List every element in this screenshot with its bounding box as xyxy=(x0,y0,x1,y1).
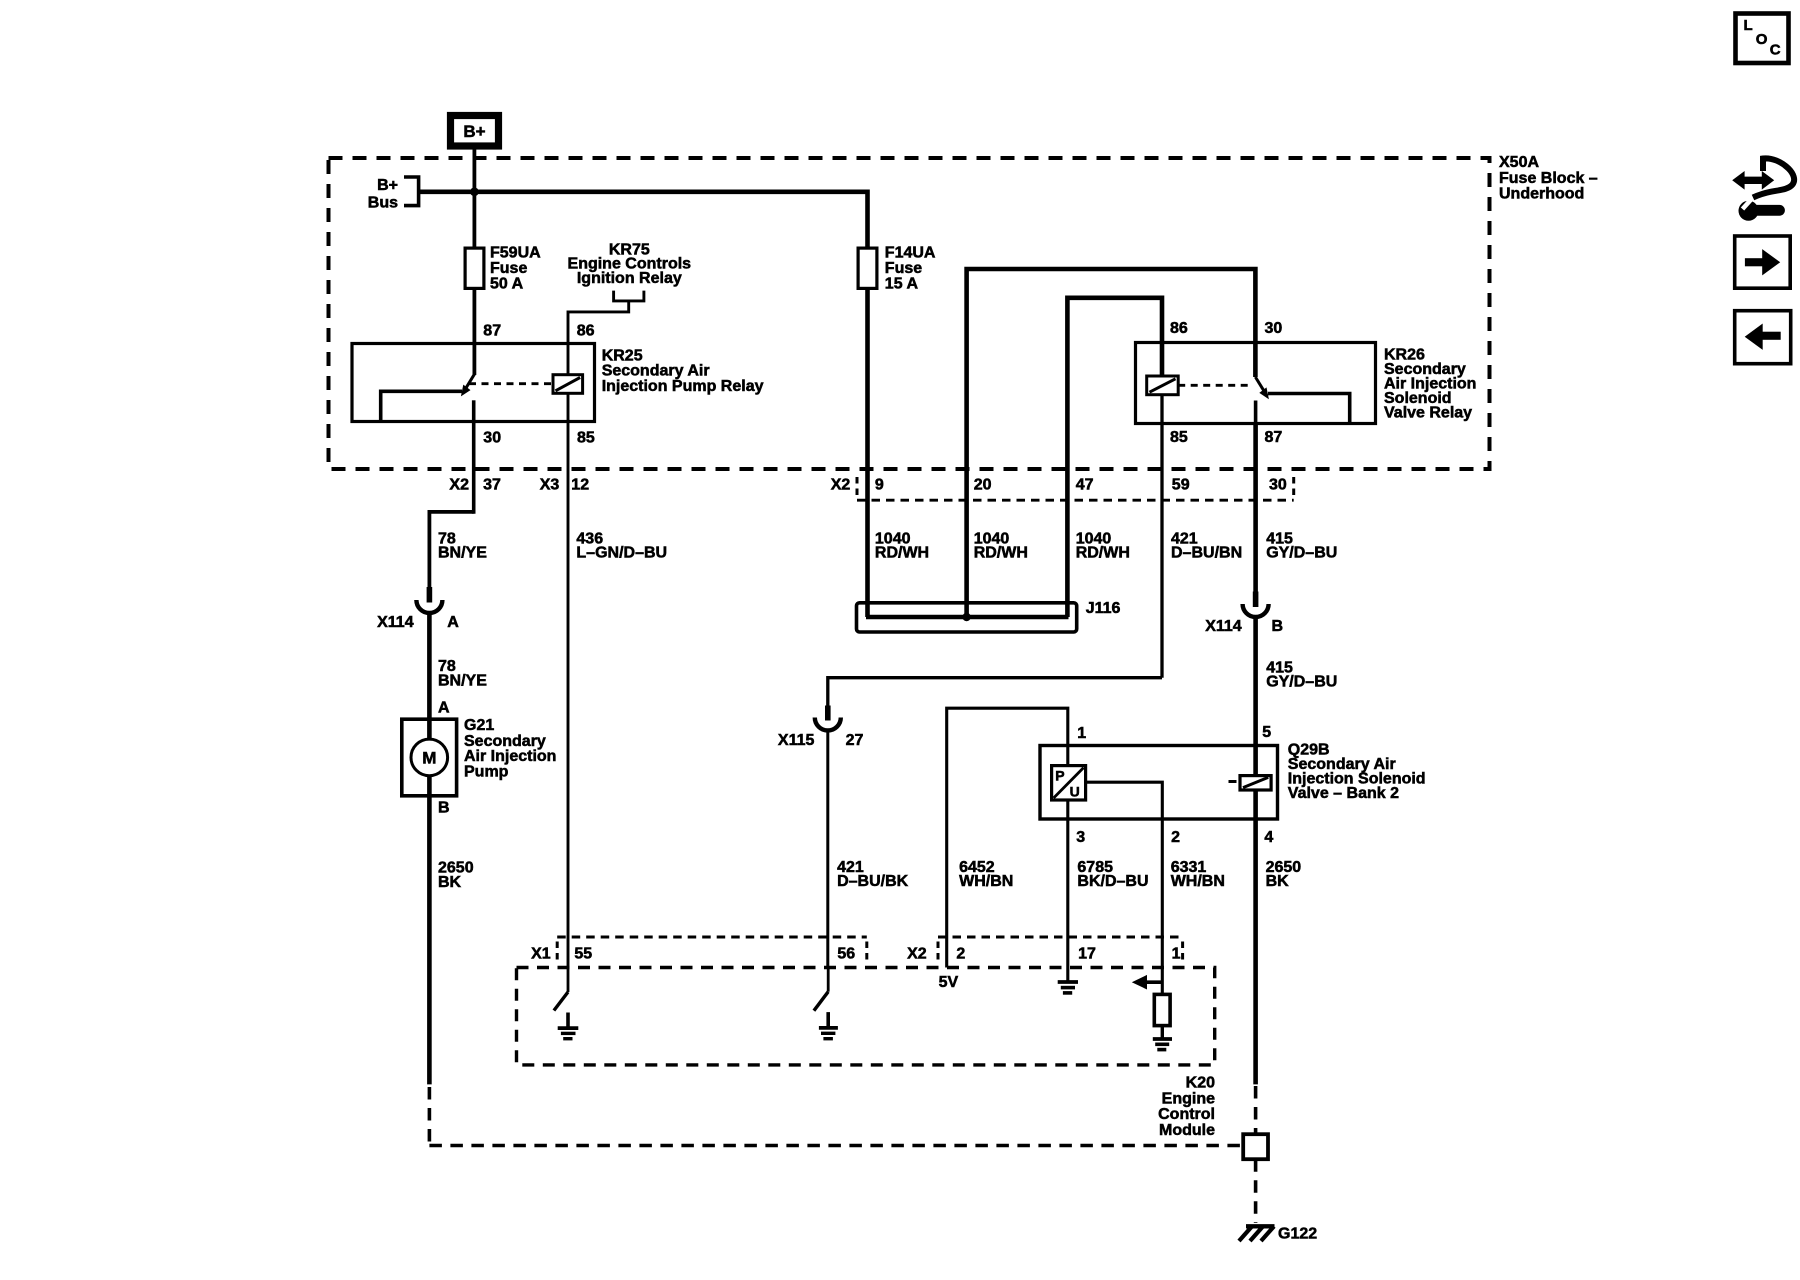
connector X1 row at ECM xyxy=(531,937,867,963)
node B+ Bus bracket xyxy=(368,177,419,212)
KR26 coil xyxy=(1147,376,1179,395)
svg-text:2: 2 xyxy=(956,946,965,963)
wire label 421 D-BU/BN xyxy=(1171,530,1242,561)
label K20 Engine Control Module xyxy=(1158,1075,1215,1139)
svg-text:D–BU/BK: D–BU/BK xyxy=(837,873,909,890)
svg-text:P: P xyxy=(1055,768,1064,784)
icon forward arrow box xyxy=(1735,236,1791,288)
svg-text:87: 87 xyxy=(1265,429,1283,446)
svg-text:RD/WH: RD/WH xyxy=(974,545,1028,562)
icon LOC box top right xyxy=(1736,14,1789,64)
svg-text:B+: B+ xyxy=(377,177,398,194)
svg-text:WH/BN: WH/BN xyxy=(959,873,1013,890)
svg-text:GY/D–BU: GY/D–BU xyxy=(1266,545,1337,562)
svg-text:87: 87 xyxy=(483,323,501,340)
wire label 78 BN/YE lower xyxy=(438,658,487,689)
fuse block X50A dashed outline xyxy=(329,158,1490,469)
ground symbol ECM pin 17 xyxy=(1058,968,1078,993)
label KR26 Secondary Air Injection Solenoid Valve Relay xyxy=(1384,346,1476,421)
junction B+ bus / F59UA feed xyxy=(470,187,479,196)
svg-text:BN/YE: BN/YE xyxy=(438,545,487,562)
KR25 pin 30 stub inside box xyxy=(472,400,476,421)
svg-text:X3: X3 xyxy=(540,476,560,493)
svg-text:X115: X115 xyxy=(778,732,815,749)
icon back arrow box xyxy=(1735,311,1791,364)
svg-text:Underhood: Underhood xyxy=(1499,186,1584,203)
node B+ battery feed box xyxy=(451,116,499,147)
relay KR75 Engine Controls Ignition Relay label xyxy=(568,242,692,288)
svg-text:GY/D–BU: GY/D–BU xyxy=(1266,674,1337,691)
svg-text:L–GN/D–BU: L–GN/D–BU xyxy=(576,545,667,562)
connector X2 row (fuse block right) dashed region xyxy=(831,476,1294,500)
KR26 common contact L-wire xyxy=(1268,394,1350,423)
wire 421 D-BU/BN elbow from KR26-85 over to X115 xyxy=(828,678,1162,707)
svg-text:85: 85 xyxy=(577,429,595,446)
ground symbol ECM resistor xyxy=(1153,1026,1172,1050)
svg-text:2: 2 xyxy=(1171,829,1180,846)
wire label 6785 BK/D-BU xyxy=(1077,859,1148,890)
icon double-arrow hand and wrench xyxy=(1732,158,1794,220)
wire KR75 bracket link to KR25 pin 86 xyxy=(568,291,644,344)
svg-text:B+: B+ xyxy=(463,122,485,141)
ground symbol ECM pin 56 xyxy=(819,1012,838,1039)
connector X114 terminal A xyxy=(377,587,459,631)
wire 1040 RD/WH from J116 up over to KR26 pin 86 coil xyxy=(1067,298,1162,617)
svg-text:59: 59 xyxy=(1172,476,1190,493)
svg-text:Air Injection: Air Injection xyxy=(464,748,556,765)
svg-text:X50A: X50A xyxy=(1499,154,1539,171)
wire 2650 BK from pump down xyxy=(427,796,432,1085)
Q29B solenoid coil xyxy=(1229,776,1272,790)
svg-text:Injection Pump Relay: Injection Pump Relay xyxy=(602,378,764,395)
svg-text:30: 30 xyxy=(1269,476,1287,493)
svg-text:85: 85 xyxy=(1170,429,1188,446)
svg-text:X2: X2 xyxy=(907,946,927,963)
ground symbol ECM pin 55 xyxy=(558,1013,579,1039)
svg-text:BN/YE: BN/YE xyxy=(438,672,487,689)
svg-text:U: U xyxy=(1070,784,1080,800)
wire KR25 pin 30 down xyxy=(472,422,476,514)
svg-text:G122: G122 xyxy=(1278,1226,1317,1243)
svg-text:O: O xyxy=(1756,31,1768,48)
svg-text:4: 4 xyxy=(1264,829,1273,846)
svg-text:55: 55 xyxy=(574,946,592,963)
svg-text:BK: BK xyxy=(438,874,462,891)
svg-text:9: 9 xyxy=(875,476,884,493)
wire label 2650 BK right xyxy=(1266,859,1302,890)
wire 6452 WH/BN elbow ECM X2-2 up to Q29B pin 1 xyxy=(947,708,1068,967)
fuse F59UA 50 A xyxy=(465,245,541,293)
resistor ECM internal xyxy=(1154,994,1170,1025)
fuse F14UA 15 A xyxy=(858,245,936,293)
wire 78 BN/YE jog from pin30 wire to X114-A xyxy=(429,512,473,588)
relay KR25 box xyxy=(352,344,595,422)
svg-text:L: L xyxy=(1744,17,1753,34)
svg-text:1: 1 xyxy=(1077,725,1086,742)
wire 6331 WH/BN Q29B pin2 to ECM X2-1 xyxy=(1161,819,1164,968)
wire 2650 BK Q29B pin4 down xyxy=(1253,819,1258,1084)
KR26 coil-blade dashed link xyxy=(1178,384,1252,387)
connector X114 terminal B xyxy=(1205,592,1283,636)
wire 415 GY/D-BU X114-B down to Q29B pin 5 xyxy=(1253,617,1258,746)
svg-text:D–BU/BN: D–BU/BN xyxy=(1171,545,1242,562)
wire Q29B pin 5 through coil xyxy=(1253,746,1258,776)
svg-text:56: 56 xyxy=(837,946,855,963)
ECM driver switch pin 55 xyxy=(554,968,568,1011)
wire label 415 GY/D-BU lower xyxy=(1266,660,1337,691)
svg-text:A: A xyxy=(447,614,459,631)
connector box at G122 junction xyxy=(1243,1134,1268,1159)
svg-text:J116: J116 xyxy=(1086,600,1121,617)
svg-text:86: 86 xyxy=(1170,320,1188,337)
motor G21 Secondary Air Injection Pump xyxy=(402,717,557,796)
svg-text:B: B xyxy=(438,799,450,816)
svg-text:Pump: Pump xyxy=(464,764,509,781)
svg-text:M: M xyxy=(422,749,436,768)
wire 78 BN/YE X114-A to pump G21 xyxy=(427,613,432,719)
svg-text:Bus: Bus xyxy=(368,195,398,212)
wire P/U bottom to Q29B pin 3 xyxy=(1066,800,1069,819)
wire label 6452 WH/BN xyxy=(959,859,1013,890)
svg-text:86: 86 xyxy=(577,323,595,340)
svg-text:B: B xyxy=(1272,618,1284,635)
svg-text:30: 30 xyxy=(1265,320,1283,337)
svg-text:WH/BN: WH/BN xyxy=(1171,873,1225,890)
wire label 78 BN/YE upper xyxy=(438,530,487,561)
KR25 coil xyxy=(553,375,583,394)
wire KR25 pin 86 inside box to coil xyxy=(567,344,570,375)
svg-text:15 A: 15 A xyxy=(885,275,919,292)
svg-text:50 A: 50 A xyxy=(490,275,524,292)
svg-text:BK: BK xyxy=(1266,873,1290,890)
svg-text:A: A xyxy=(438,699,450,716)
svg-text:RD/WH: RD/WH xyxy=(875,545,929,562)
svg-text:27: 27 xyxy=(846,732,864,749)
svg-text:C: C xyxy=(1770,42,1781,59)
ECM pin 1 input wire xyxy=(1161,968,1164,995)
wire label 6331 WH/BN xyxy=(1171,859,1225,890)
svg-text:12: 12 xyxy=(571,476,589,493)
svg-text:20: 20 xyxy=(974,476,992,493)
wire label 1040 RD/WH (pin 9) xyxy=(875,530,929,561)
wire label 1040 RD/WH (pin 47) xyxy=(1076,530,1130,561)
connector X115 pin 27 xyxy=(778,706,864,750)
KR25 blade-coil dashed link xyxy=(469,382,553,385)
svg-text:X1: X1 xyxy=(531,946,551,963)
wire 1040 RD/WH from J116 up over to KR26 pin 30 xyxy=(967,269,1256,617)
svg-text:X2: X2 xyxy=(831,476,851,493)
KR26 switch blade with arrow contact xyxy=(1255,377,1269,399)
wire B+ box to bus and fuse F59UA xyxy=(472,146,476,375)
wire B+ bus horizontal xyxy=(419,190,868,195)
svg-text:Valve Relay: Valve Relay xyxy=(1384,405,1472,422)
KR25 common contact L-wire xyxy=(381,391,462,420)
wire 2650 BK dashed ground distribution from pump xyxy=(429,1087,1242,1146)
connector X2 pin 37 label xyxy=(449,476,501,493)
ECM driver switch pin 56 xyxy=(814,968,828,1011)
svg-text:Ignition Relay: Ignition Relay xyxy=(577,270,682,287)
svg-text:X2: X2 xyxy=(449,476,469,493)
svg-text:Control: Control xyxy=(1158,1106,1215,1123)
svg-text:37: 37 xyxy=(483,476,501,493)
svg-text:30: 30 xyxy=(483,429,501,446)
svg-text:RD/WH: RD/WH xyxy=(1076,545,1130,562)
svg-text:3: 3 xyxy=(1076,829,1085,846)
svg-text:5: 5 xyxy=(1262,724,1271,741)
pressure sensor P/U symbol in Q29B xyxy=(1052,766,1086,800)
svg-text:1: 1 xyxy=(1172,946,1181,963)
wire KR25 coil to pin 85 and down to ECM X1-55 xyxy=(567,393,570,967)
svg-text:BK/D–BU: BK/D–BU xyxy=(1077,873,1148,890)
svg-text:Module: Module xyxy=(1159,1122,1215,1139)
wire 421 D-BU/BK X115 down to ECM X1-56 xyxy=(826,731,829,968)
svg-text:X114: X114 xyxy=(1205,618,1242,635)
signal arrow ECM pin 1 xyxy=(1132,975,1164,990)
svg-text:5V: 5V xyxy=(939,974,959,991)
svg-text:Valve – Bank 2: Valve – Bank 2 xyxy=(1288,785,1399,802)
svg-text:K20: K20 xyxy=(1186,1075,1215,1092)
module K20 ECM dashed box xyxy=(517,968,1215,1065)
label Q29B Secondary Air Injection Solenoid Valve - Bank 2 xyxy=(1288,741,1426,802)
wire KR26 pin 87 down to X114-B xyxy=(1253,424,1258,593)
wire P/U to Q29B pin 2 xyxy=(1086,782,1163,819)
svg-text:Engine: Engine xyxy=(1162,1090,1215,1107)
connector X3 pin 12 label xyxy=(540,476,589,493)
wire 2650 BK dashed from Q29B pin 4 to G122 xyxy=(1254,1086,1258,1223)
solenoid valve Q29B box xyxy=(1040,746,1278,820)
wire 6785 BK/D-BU Q29B pin3 to ECM X2-17 xyxy=(1066,819,1069,968)
wire bus corner down to F14UA xyxy=(865,190,870,618)
svg-text:G21: G21 xyxy=(464,717,494,734)
splice pack J116 xyxy=(857,600,1121,632)
wire label 436 L-GN/D-BU xyxy=(576,530,667,561)
relay KR26 box xyxy=(1136,343,1376,424)
svg-text:17: 17 xyxy=(1078,946,1096,963)
ground G122 chassis symbol xyxy=(1239,1226,1317,1243)
wire KR26 coil to pin 85 down through X2-59 xyxy=(1160,395,1163,678)
KR25 switch blade with arrow contact xyxy=(461,374,475,396)
svg-text:X114: X114 xyxy=(377,614,414,631)
svg-text:Fuse Block –: Fuse Block – xyxy=(1499,170,1598,187)
wire Q29B coil to pin 4 xyxy=(1253,790,1258,819)
wire label 421 D-BU/BK xyxy=(837,859,909,890)
wire label 2650 BK left xyxy=(438,860,474,891)
label KR25 Secondary Air Injection Pump Relay xyxy=(602,347,764,395)
KR26 pin 87 stub inside box xyxy=(1254,401,1258,424)
connector X2 row at ECM xyxy=(907,937,1182,963)
wire label 1040 RD/WH (pin 20) xyxy=(974,530,1028,561)
wire label 415 GY/D-BU upper xyxy=(1266,530,1337,561)
label X50A Fuse Block - Underhood xyxy=(1499,154,1598,203)
svg-text:47: 47 xyxy=(1076,476,1094,493)
